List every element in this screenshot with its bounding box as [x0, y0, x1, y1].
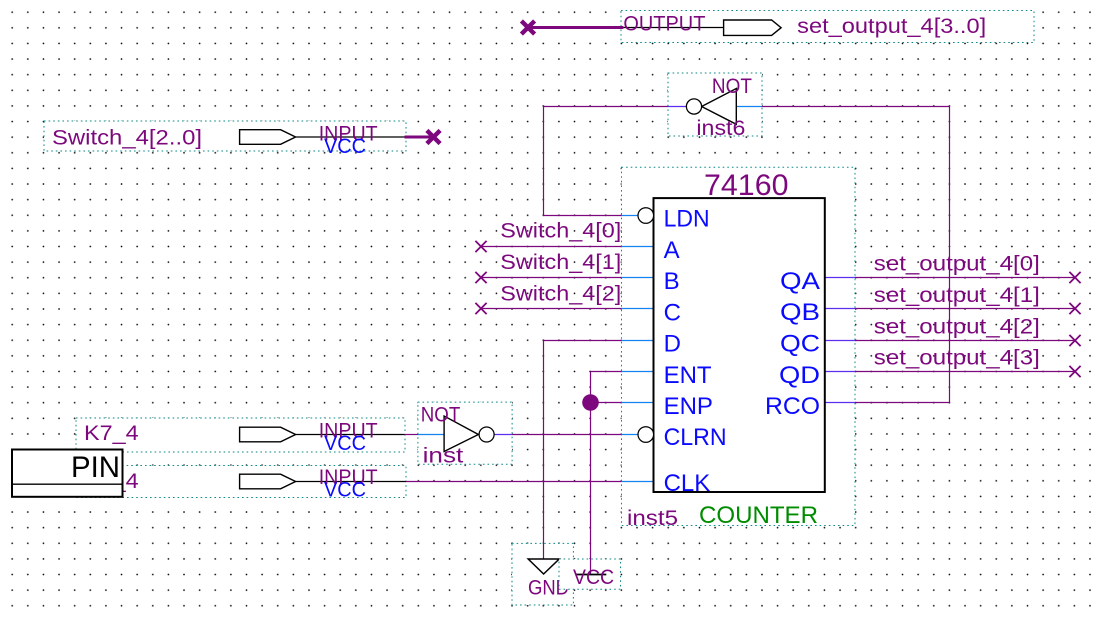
svg-text:VCC: VCC — [324, 478, 366, 501]
svg-text:Switch_4[2..0]: Switch_4[2..0] — [52, 127, 202, 150]
svg-text:set_output_4[3..0]: set_output_4[3..0] — [797, 15, 986, 38]
svg-text:inst: inst — [423, 445, 464, 468]
svg-text:VCC: VCC — [324, 135, 366, 158]
svg-text:COUNTER: COUNTER — [699, 502, 818, 529]
svg-text:K7_4: K7_4 — [84, 422, 139, 445]
svg-text:VCC: VCC — [573, 566, 614, 589]
svg-text:set_output_4[2]: set_output_4[2] — [874, 315, 1040, 338]
svg-text:OUTPUT: OUTPUT — [623, 13, 705, 36]
svg-text:NOT: NOT — [712, 75, 752, 98]
svg-text:PIN: PIN — [71, 451, 120, 484]
svg-text:Switch_4[0]: Switch_4[0] — [500, 220, 621, 243]
svg-text:NOT: NOT — [421, 404, 461, 427]
svg-text:set_output_4[1]: set_output_4[1] — [874, 284, 1040, 307]
svg-text:Switch_4[1]: Switch_4[1] — [500, 251, 621, 274]
svg-text:QC: QC — [780, 331, 820, 358]
svg-text:QD: QD — [779, 362, 820, 389]
svg-text:RCO: RCO — [765, 393, 820, 420]
svg-text:A: A — [664, 237, 680, 264]
svg-text:QA: QA — [780, 268, 820, 295]
svg-text:set_output_4[0]: set_output_4[0] — [874, 253, 1040, 276]
svg-text:CLK: CLK — [664, 470, 711, 497]
svg-text:B: B — [664, 268, 680, 295]
svg-text:inst5: inst5 — [627, 507, 678, 530]
svg-text:LDN: LDN — [664, 206, 710, 233]
svg-text:D: D — [664, 331, 681, 358]
svg-text:ENP: ENP — [664, 393, 713, 420]
svg-text:QB: QB — [780, 299, 820, 326]
svg-text:Switch_4[2]: Switch_4[2] — [500, 282, 621, 305]
svg-text:C: C — [664, 299, 681, 326]
svg-text:inst6: inst6 — [696, 117, 745, 140]
svg-text:CLRN: CLRN — [664, 424, 727, 451]
svg-text:VCC: VCC — [324, 432, 366, 455]
svg-text:set_output_4[3]: set_output_4[3] — [874, 347, 1040, 370]
svg-text:74160: 74160 — [704, 169, 789, 202]
svg-text:ENT: ENT — [664, 362, 712, 389]
